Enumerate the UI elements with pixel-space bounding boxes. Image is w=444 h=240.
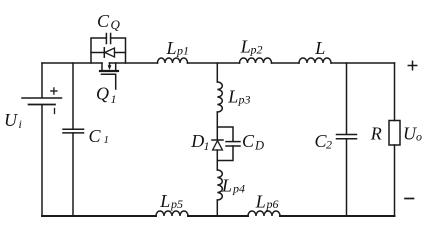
inductor Lp5 [156,211,188,216]
snubber diode cathode bar [103,48,105,57]
svg-text:D: D [254,139,264,153]
battery plus polarity mark [51,88,57,94]
resistor R box [389,121,400,146]
label Q1 [96,84,117,107]
wire middle branch between Lp3 and D1 [216,112,218,140]
inductor Lp1 [158,58,188,63]
svg-text:1: 1 [104,134,110,146]
svg-text:R: R [370,124,382,144]
svg-text:p6: p6 [266,197,279,211]
wire C1 branch lower [72,133,74,216]
svg-text:i: i [19,117,22,131]
svg-text:2: 2 [326,137,332,151]
svg-text:p5: p5 [170,197,183,211]
svg-text:p1: p1 [176,44,189,58]
wire top rail mid segment [110,62,158,64]
output minus polarity mark [405,198,414,200]
label Lp6 [255,191,279,211]
inductor L [299,58,331,63]
svg-text:o: o [416,130,422,144]
label Uo [403,124,422,144]
snubber diode triangle [105,48,115,57]
svg-text:Q: Q [96,84,109,104]
svg-text:L: L [221,176,232,196]
wire C2 branch lower [346,139,348,216]
svg-text:1: 1 [111,92,117,106]
svg-text:L: L [255,191,266,211]
svg-text:C: C [89,126,102,146]
inductor Lp3 [217,82,222,112]
wire CD parallel branch top [217,127,233,141]
wire bottom rail mid segment [188,215,248,217]
output plus polarity mark [408,61,416,69]
svg-text:L: L [240,36,251,56]
svg-text:U: U [403,124,417,144]
battery minus polarity tick [54,109,56,114]
wire R branch lower [394,145,396,216]
label Lp4 [221,176,245,196]
label C1 [89,126,110,146]
label Lp5 [159,191,183,211]
transistor Q1 channel bar [100,70,118,72]
snubber network rectangle left side [91,38,106,63]
label R [370,124,382,144]
svg-text:L: L [166,38,177,58]
snubber network rectangle right side [111,38,126,63]
svg-text:U: U [4,110,18,130]
wire bottom rail right segment [280,215,395,217]
wire middle branch lower [216,200,218,216]
transistor Q1 arrow lead [109,63,111,66]
label Lp2 [240,36,263,56]
wire top rail left segment [42,62,102,64]
transistor Q1 arrowhead [108,65,112,70]
transistor Q1 drain lead [101,63,103,70]
svg-text:1: 1 [204,139,210,153]
svg-text:p3: p3 [238,93,251,107]
label Lp1 [166,38,190,58]
wire C2 branch upper [346,63,348,134]
voltage source Ui battery plates [22,98,62,105]
wire top rail between Lp2 and L [272,62,300,64]
capacitor CQ [106,34,110,44]
svg-text:L: L [227,87,238,107]
wire left rail upper (source to top rail) [41,63,43,97]
wire snubber diode row right [115,52,126,54]
wire middle branch upper [216,63,218,82]
svg-text:L: L [159,191,170,211]
label C2 [315,131,333,151]
svg-text:Q: Q [111,17,121,32]
capacitor C2 [337,135,357,139]
transistor Q1 source lead [115,63,117,70]
wire bottom rail left segment [42,215,156,217]
label D1 [190,131,209,153]
wire C1 branch upper [72,63,74,129]
svg-text:C: C [242,131,255,151]
svg-text:L: L [314,38,325,58]
svg-text:D: D [190,131,204,151]
label Ui [4,110,22,131]
wire left rail lower [41,105,43,216]
transistor Q1 gate line [102,74,116,89]
svg-text:p2: p2 [250,43,263,57]
diode D1 triangle [213,141,223,150]
inductor Lp2 [240,58,272,63]
diode D1 cathode bar [212,139,223,141]
wire top rail right segment [331,62,395,64]
svg-text:p4: p4 [232,182,245,196]
wire top rail between Lp1 and Lp2 [188,62,240,64]
label L [314,38,325,58]
label CQ [97,11,121,32]
wire snubber diode row left [91,52,104,54]
label CD [242,131,264,153]
svg-text:C: C [97,11,110,31]
capacitor C1 [63,129,84,133]
inductor Lp4 [217,170,222,200]
label Lp3 [227,87,250,107]
capacitor CD [226,142,240,146]
inductor Lp6 [248,211,280,216]
wire R branch upper [394,63,396,121]
wire middle branch between D1 and Lp4 [216,150,218,170]
wire CD parallel branch bottom [217,146,233,161]
